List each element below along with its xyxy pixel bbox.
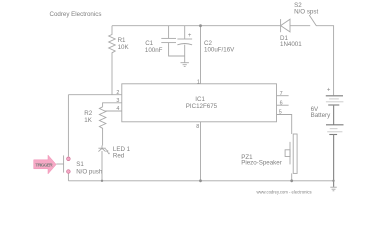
svg-text:PIC12F675: PIC12F675 bbox=[186, 103, 218, 110]
piezo PZ1 body bbox=[293, 134, 297, 173]
wire piezo bottom to rail bbox=[291, 173, 293, 180]
svg-text:S1: S1 bbox=[76, 161, 84, 168]
wire battery bottom to rail bbox=[333, 135, 335, 187]
trigger arrow bbox=[34, 155, 57, 174]
svg-text:+: + bbox=[188, 33, 192, 39]
capacitor C2 (polarized) bbox=[184, 26, 186, 39]
switch S1 top contact bbox=[67, 157, 71, 161]
wire pin5 to piezo bbox=[277, 115, 292, 135]
svg-text:N/O spst: N/O spst bbox=[294, 8, 318, 15]
wire VDD pin1 (rail junction down to IC) bbox=[200, 26, 202, 84]
piezo PZ1 terminal box bbox=[285, 150, 290, 157]
junction dot pin8 rail bbox=[199, 179, 202, 182]
svg-text:10K: 10K bbox=[118, 44, 130, 51]
svg-text:5: 5 bbox=[279, 110, 282, 116]
junction dot piezo rail bbox=[290, 179, 293, 182]
svg-text:+: + bbox=[327, 87, 331, 93]
svg-text:100uF/16V: 100uF/16V bbox=[204, 47, 235, 54]
wire left rail down to S1 bbox=[67, 95, 69, 157]
IC U1 body bbox=[122, 84, 277, 122]
wire bottom rail bbox=[68, 180, 333, 182]
capacitor C1 bbox=[168, 26, 170, 39]
LED1 emission arrows bbox=[105, 148, 108, 151]
svg-text:Piezo-Speaker: Piezo-Speaker bbox=[241, 160, 282, 167]
switch S1 lever bbox=[63, 155, 65, 172]
switch S2 lever bbox=[309, 15, 316, 26]
svg-text:7: 7 bbox=[280, 91, 283, 97]
svg-text:8: 8 bbox=[196, 124, 199, 130]
svg-text:C1: C1 bbox=[145, 40, 153, 47]
battery BT1 cell stack 1 bbox=[326, 95, 343, 97]
svg-text:R1: R1 bbox=[118, 37, 126, 44]
wire pin4 stub bbox=[105, 110, 122, 112]
diode D1 bbox=[280, 19, 282, 32]
wire pin3 to R2 bbox=[103, 103, 122, 107]
wire top rail right + corner down to battery bbox=[316, 26, 333, 96]
svg-text:TRIGGER: TRIGGER bbox=[35, 162, 53, 167]
battery BT1 cell stack 2 bbox=[326, 124, 344, 126]
svg-text:R2: R2 bbox=[84, 110, 92, 117]
wire pin6 stub bbox=[277, 104, 289, 106]
wire top rail mid (diode to switch) bbox=[290, 25, 310, 27]
LED1 bbox=[101, 146, 103, 149]
svg-text:3: 3 bbox=[116, 98, 119, 104]
junction dot VDD rail bbox=[199, 24, 202, 27]
wire S1 bottom to rail bbox=[67, 174, 69, 181]
svg-text:Codrey Electronics: Codrey Electronics bbox=[50, 11, 102, 18]
junction dot LED bottom bbox=[101, 180, 103, 182]
svg-text:Battery: Battery bbox=[311, 112, 332, 119]
svg-text:www.codrey.com - electronics: www.codrey.com - electronics bbox=[257, 190, 312, 195]
svg-text:2: 2 bbox=[116, 90, 119, 96]
ground (under C2) bbox=[181, 62, 189, 64]
switch S1 actuator stub bbox=[56, 163, 63, 165]
svg-text:N/O push: N/O push bbox=[76, 169, 103, 176]
ground (battery negative) bbox=[330, 186, 337, 188]
wire top rail left (R1 top to diode) bbox=[112, 25, 280, 27]
junction dot battery rail bbox=[332, 180, 334, 182]
svg-text:100nF: 100nF bbox=[145, 47, 163, 54]
wire pin2 (IC to left rail) bbox=[68, 94, 121, 96]
wire pin8 (IC bottom to rail) bbox=[200, 122, 202, 181]
piezo PZ1 left plate bbox=[289, 142, 291, 165]
svg-text:1K: 1K bbox=[84, 117, 92, 124]
svg-text:IC1: IC1 bbox=[195, 96, 205, 103]
switch S1 bottom contact bbox=[67, 170, 71, 174]
svg-text:4: 4 bbox=[116, 106, 119, 112]
resistor R1 bbox=[109, 26, 116, 95]
svg-text:1: 1 bbox=[197, 80, 200, 86]
svg-text:Red: Red bbox=[113, 153, 125, 160]
wire pin7 stub bbox=[277, 95, 289, 97]
svg-text:6: 6 bbox=[280, 100, 283, 106]
resistor R2 bbox=[99, 107, 106, 146]
svg-text:1N4001: 1N4001 bbox=[280, 41, 302, 48]
wire battery middle bbox=[333, 105, 335, 125]
